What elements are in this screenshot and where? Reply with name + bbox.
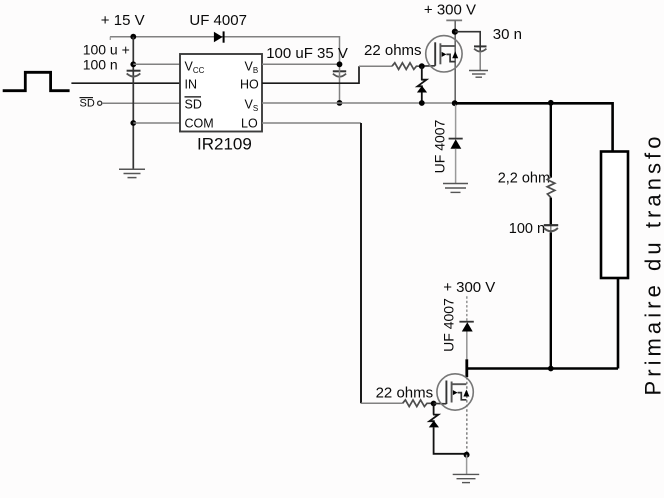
svg-text:100 n: 100 n: [83, 56, 118, 72]
svg-text:UF 4007: UF 4007: [189, 12, 247, 29]
svg-text:UF 4007: UF 4007: [432, 119, 448, 173]
capacitor C2 100uF: [333, 70, 346, 72]
wire snubber top: [550, 103, 552, 178]
wire VB: [262, 63, 340, 65]
svg-text:UF 4007: UF 4007: [441, 298, 457, 352]
wire D3 to drain node: [466, 332, 468, 360]
wire gate (top fet): [422, 65, 436, 67]
zener Z1: [421, 66, 423, 80]
wire LO: [262, 122, 361, 124]
wire transformer bottom lead: [617, 278, 620, 369]
wire SD to IC: [102, 102, 180, 104]
ground G2: [469, 71, 488, 78]
ground G1: [119, 169, 145, 177]
svg-text:+ 15 V: + 15 V: [101, 12, 145, 29]
power +300V bar (top): [446, 19, 462, 21]
resistor R2 22 ohms: [403, 400, 434, 407]
svg-text:2,2 ohm: 2,2 ohm: [498, 170, 550, 186]
node source dot (bottom): [464, 452, 470, 458]
diode D3 UF4007: [459, 321, 473, 323]
capacitor C1 100u+100n: [127, 70, 141, 72]
transistor Q1 MOSFET (top): [426, 36, 462, 72]
wire Vcc: [133, 63, 180, 65]
resistor R3 2,2 ohm: [547, 177, 555, 198]
node gate dot (top): [419, 63, 425, 69]
node Vcc junction dot: [130, 61, 136, 67]
capacitor C3 30n: [474, 45, 487, 47]
svg-text:100 uF 35 V: 100 uF 35 V: [266, 45, 348, 62]
capacitor C4 100n: [544, 224, 558, 226]
wire gate (bottom fet): [434, 402, 447, 404]
node VB cap dot: [337, 61, 343, 67]
svg-text:100 u +: 100 u +: [83, 42, 130, 58]
node drain branch dot: [452, 29, 458, 35]
wire VS node to transformer (thick): [455, 103, 613, 151]
wire source to ground: [466, 455, 468, 475]
wire +300V to D3: [466, 296, 468, 321]
svg-text:SD: SD: [80, 98, 95, 110]
svg-text:+ 300 V: + 300 V: [424, 2, 476, 19]
wire +300V drop: [454, 20, 456, 103]
pulse input waveform: [3, 72, 70, 90]
node snubber bottom dot: [548, 366, 554, 372]
svg-text:IR2109: IR2109: [197, 135, 252, 154]
wire LO vertical: [360, 123, 362, 403]
wire VS line: [262, 102, 455, 104]
wire IN from pulse to IC: [71, 82, 180, 84]
svg-text:22 ohms: 22 ohms: [376, 385, 434, 402]
wire COM: [133, 122, 180, 124]
wire between R3 and C4: [550, 198, 552, 225]
node source-VS dot: [452, 100, 458, 106]
wire 30n branch: [455, 32, 480, 52]
wire +15V rail: [110, 37, 340, 65]
wire drain through FET (dashed): [466, 377, 468, 455]
wire vertical bypass branch: [132, 37, 134, 169]
svg-text:+ 300 V: + 300 V: [443, 279, 495, 296]
svg-text:30 n: 30 n: [493, 26, 522, 43]
resistor R1 22 ohms: [392, 63, 422, 70]
svg-text:SD: SD: [185, 97, 202, 111]
diode D2 UF4007 (freewheel to ground): [455, 103, 457, 139]
ground G4: [453, 474, 480, 482]
diode D1 UF4007: [214, 32, 223, 43]
node VS cap dot: [337, 100, 343, 106]
wire bottom node line: [467, 367, 618, 370]
wire LO to gate resistor: [361, 402, 403, 404]
node zener-VS dot: [419, 100, 425, 106]
svg-text:22 ohms: 22 ohms: [364, 42, 422, 59]
svg-text:COM: COM: [185, 116, 214, 130]
svg-text:LO: LO: [241, 116, 258, 130]
zener Z2: [433, 404, 435, 415]
op-amp U1 IR2109 box: [180, 54, 262, 132]
wire HO: [262, 66, 359, 83]
svg-text:100 n: 100 n: [509, 221, 545, 237]
transistor Q2 MOSFET (bottom): [437, 374, 473, 410]
ground G3: [443, 184, 468, 193]
node COM junction dot: [130, 120, 136, 126]
node +15V junction dot: [130, 34, 136, 40]
node snubber top dot: [548, 100, 554, 106]
transformer primary winding: [601, 152, 628, 279]
wire HO to gate resistor: [359, 65, 392, 67]
node gate dot (bottom): [431, 401, 437, 407]
svg-text:HO: HO: [240, 77, 259, 91]
svg-text:IN: IN: [185, 77, 198, 91]
